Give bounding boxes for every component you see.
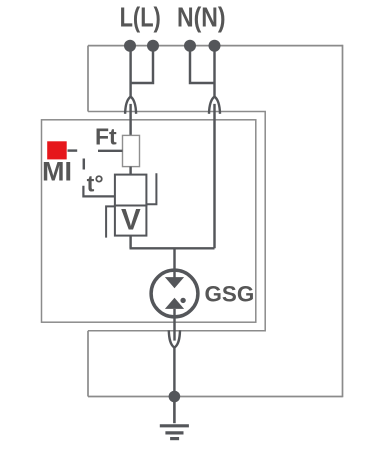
varistor moving contact (left bracket) <box>106 206 115 237</box>
enclosure outline (pluggable module frame, open left) <box>88 112 265 331</box>
wire: PE plug to ground bus <box>173 346 175 397</box>
terminal dot N1 <box>184 40 196 52</box>
thermal actuator link <box>83 186 115 197</box>
wire: L drop to plug <box>129 46 131 97</box>
terminal dot L2 <box>147 40 159 52</box>
wire: outer loop right side <box>342 45 344 398</box>
fault indicator MI (red window) <box>47 141 66 159</box>
svg-text:t°: t° <box>87 170 104 196</box>
GDT bottom electrode triangle <box>165 298 184 309</box>
wire: N1 jog <box>190 46 215 83</box>
GDT gas-filled dot <box>180 298 185 303</box>
thermal fuse Ft body <box>123 135 140 166</box>
ground bar 2 <box>165 431 183 434</box>
svg-text:V: V <box>121 204 141 237</box>
wire: N drop to plug <box>213 46 215 97</box>
wire: N plug to node bus <box>213 104 215 248</box>
indicator link dash 1 <box>68 149 78 151</box>
wire: outer loop left top segment <box>87 46 89 112</box>
wire: top bus <box>88 45 343 47</box>
wire: GDT to PE plug <box>173 309 175 341</box>
wire: L2 jog <box>131 46 153 83</box>
protection circuit box <box>42 120 256 322</box>
plug-in contact L <box>125 97 136 114</box>
plug-in contact PE <box>169 330 180 347</box>
svg-text:L(L): L(L) <box>120 1 161 32</box>
wire: outer loop left bottom segment <box>87 331 89 397</box>
wire: L plug to fuse <box>129 104 131 135</box>
gas discharge tube GSG circle <box>151 270 198 317</box>
svg-text:GSG: GSG <box>205 282 255 307</box>
wire: node to GDT <box>173 248 175 277</box>
wire: bottom bus PE <box>88 396 343 398</box>
GDT top electrode triangle <box>165 277 184 288</box>
junction PE node <box>169 391 181 403</box>
plug-in contact N <box>209 97 220 114</box>
disconnector contact box <box>115 175 146 206</box>
svg-text:Ft: Ft <box>95 123 117 149</box>
Ft release link <box>98 150 123 152</box>
wire: node bus <box>130 247 215 249</box>
ground bar 3 <box>170 437 179 440</box>
ground bar 1 <box>160 424 189 427</box>
terminal dot N2 <box>209 40 221 52</box>
disconnector moving contact (right bracket) <box>146 173 156 204</box>
varistor body <box>115 206 146 236</box>
indicator link dash 2 <box>83 159 85 170</box>
wire: fuse to disconnector <box>129 167 131 175</box>
ground stem <box>173 398 176 423</box>
svg-text:N(N): N(N) <box>177 1 226 32</box>
svg-text:MI: MI <box>42 156 72 186</box>
wire: varistor to node bus <box>129 236 131 249</box>
terminal dot L1 <box>124 40 136 52</box>
